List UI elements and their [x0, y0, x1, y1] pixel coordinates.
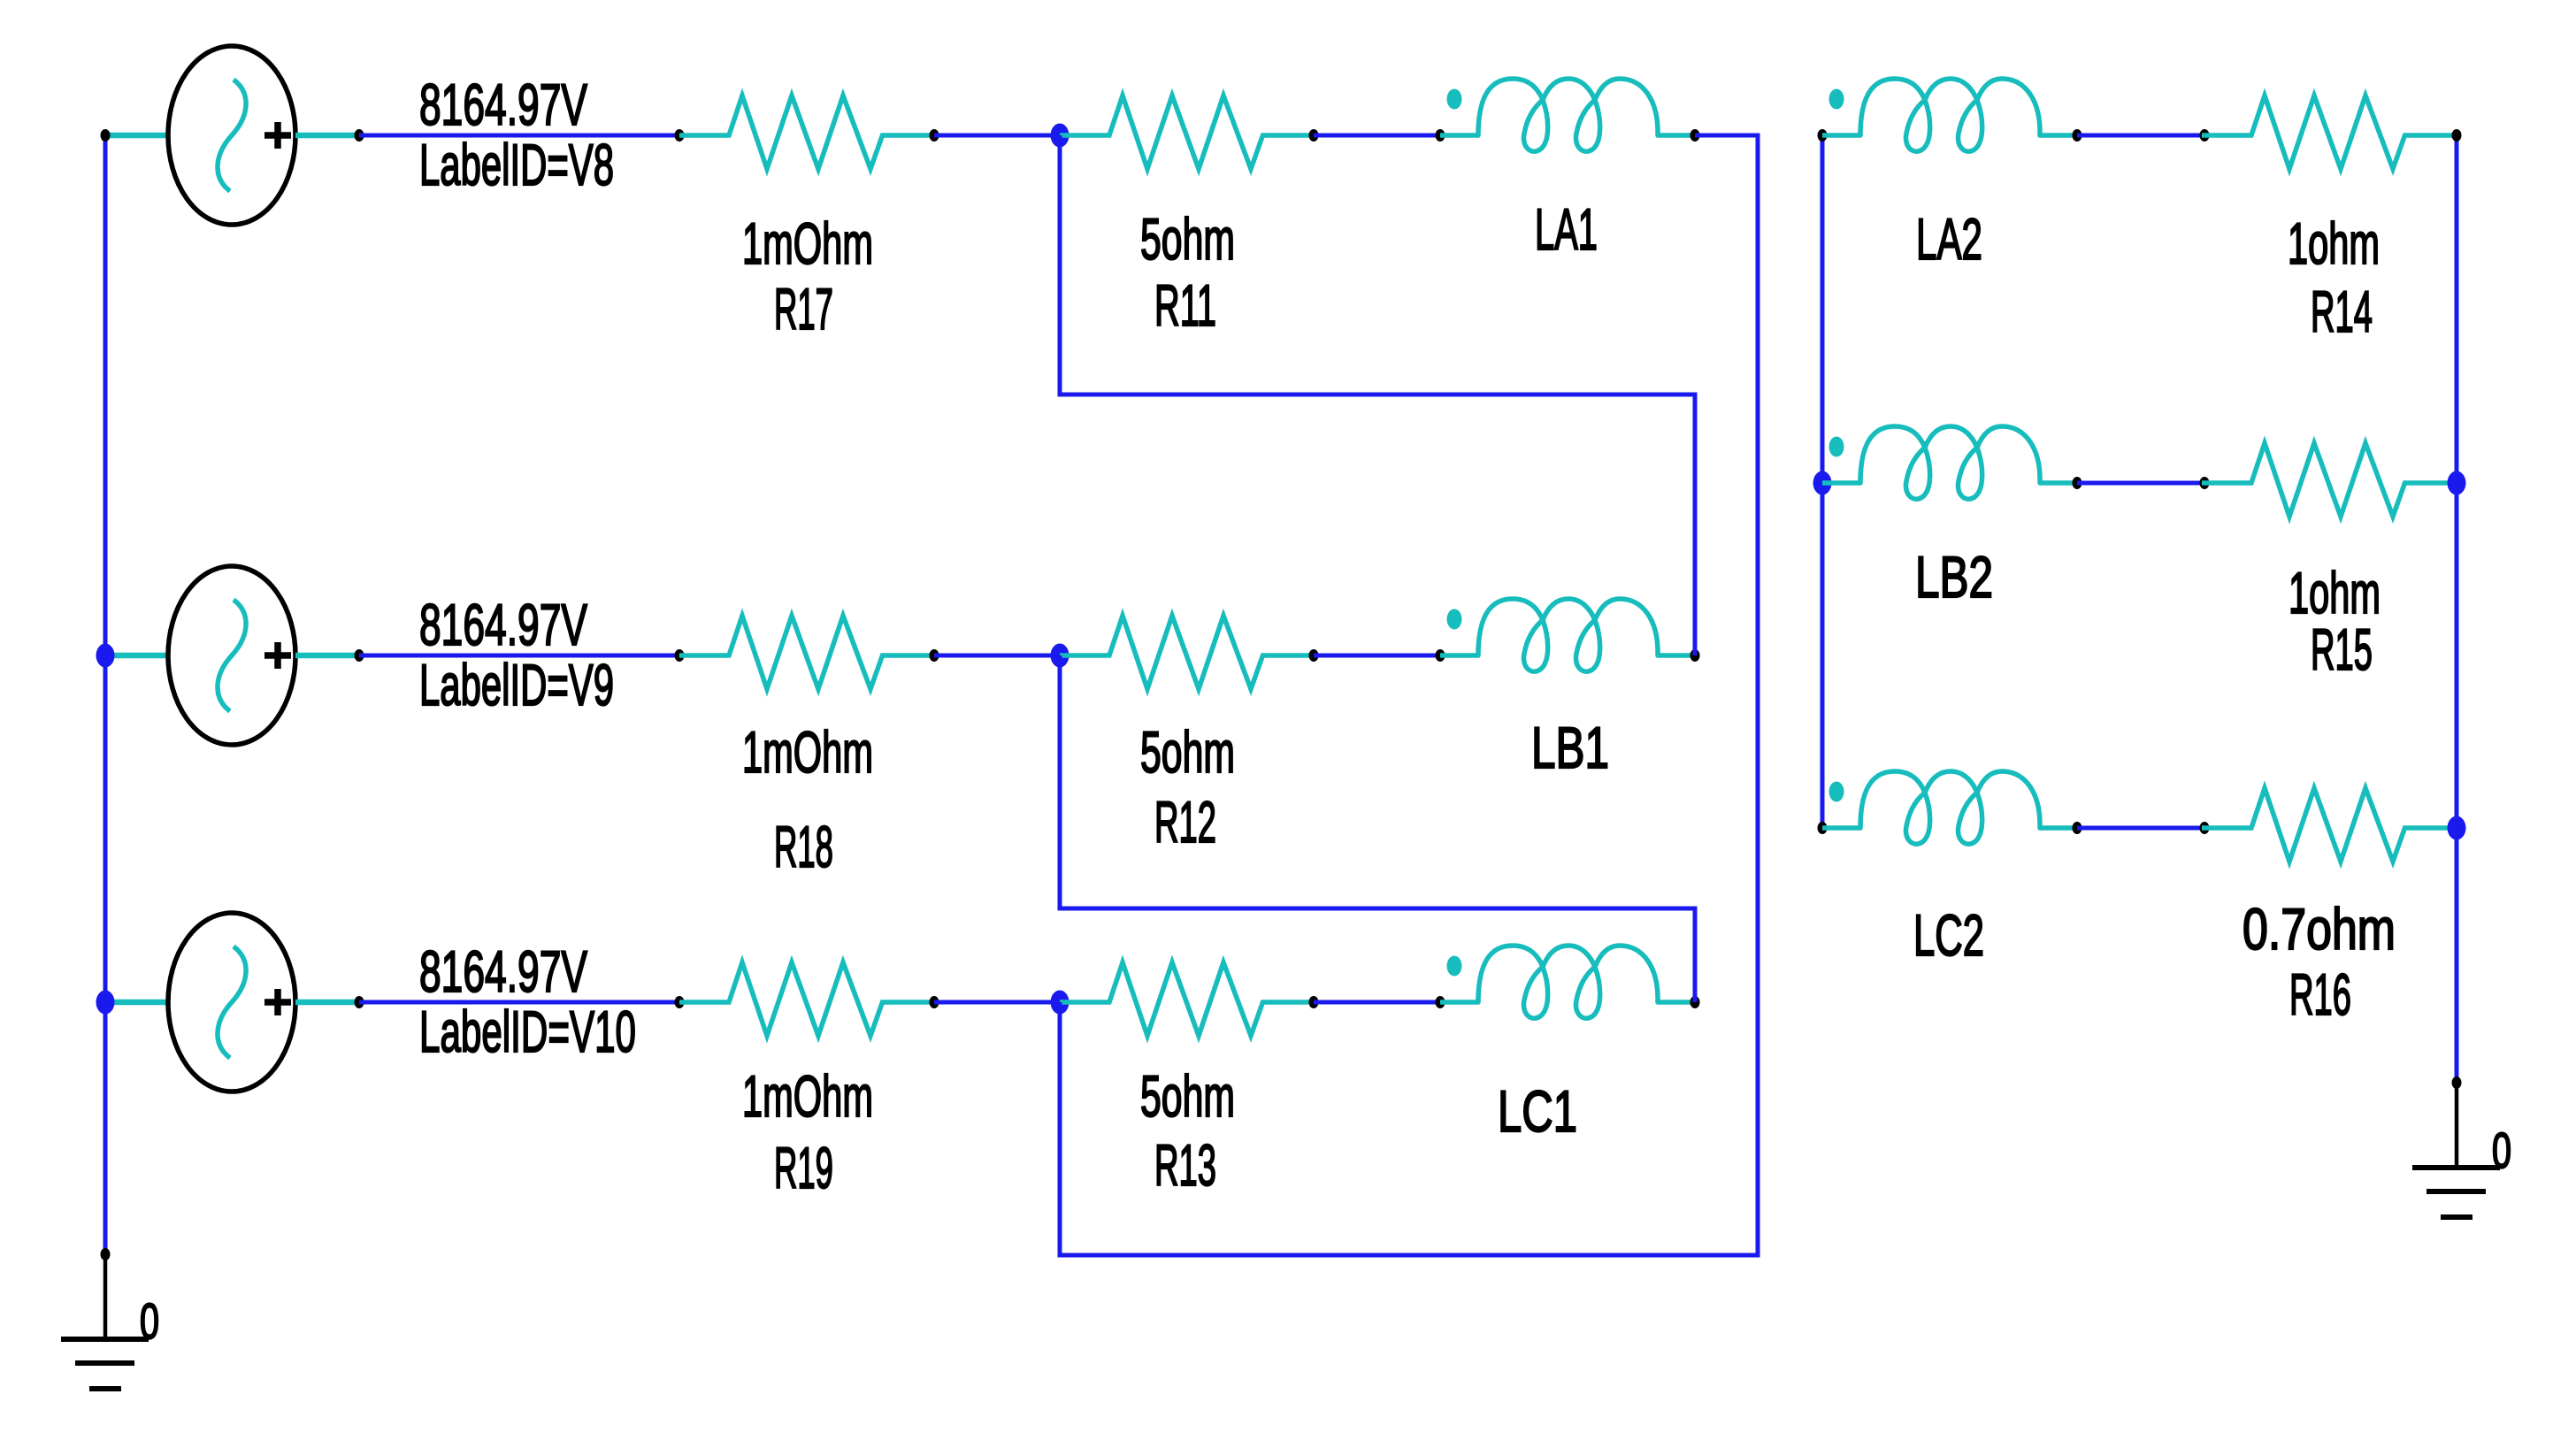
junction left bus row3 [96, 991, 115, 1015]
wire source V9 left stub [105, 653, 170, 659]
junction node R18/R12 [1051, 644, 1069, 668]
svg-text:LabelID=V9: LabelID=V9 [419, 652, 614, 717]
label R12 value 5ohm [1140, 719, 1235, 785]
svg-text:R12: R12 [1154, 789, 1216, 854]
svg-text:LB1: LB1 [1531, 715, 1609, 780]
label 0 left ground [140, 1293, 159, 1350]
svg-text:R18: R18 [774, 814, 833, 879]
wire R12 to LB1 [1314, 654, 1440, 658]
AC voltage source V8 [168, 46, 295, 225]
pin R19 right [930, 996, 939, 1008]
svg-text:8164.97V: 8164.97V [419, 72, 587, 137]
label LabelID=V9 [419, 652, 614, 717]
junction R16 right bus [2448, 816, 2466, 840]
pin LA1 right [1690, 129, 1700, 142]
pin R19 left [675, 996, 685, 1008]
pin R16 left [2200, 822, 2210, 834]
label LabelID=V8 [419, 132, 614, 197]
svg-text:R16: R16 [2289, 962, 2351, 1027]
label R16 value [2242, 896, 2396, 962]
junction LB2 left bus [1813, 471, 1832, 495]
wire R17 to node [934, 134, 1060, 138]
label R13 ref [1154, 1132, 1216, 1198]
wire LC2 to R16 [2077, 826, 2204, 831]
pin LB1 right [1690, 649, 1700, 662]
svg-text:1mOhm: 1mOhm [742, 211, 873, 276]
svg-text:LC1: LC1 [1498, 1078, 1577, 1144]
wire source V10 left stub [105, 1000, 170, 1006]
label 0 right ground [2492, 1122, 2511, 1179]
svg-text:8164.97V: 8164.97V [419, 592, 587, 657]
svg-text:R11: R11 [1154, 272, 1216, 338]
label R19 value 1mOhm [742, 1063, 873, 1129]
label R14 value [2288, 211, 2380, 276]
svg-text:0.7ohm: 0.7ohm [2242, 896, 2396, 962]
label R11 ref [1154, 272, 1216, 338]
pin R11 right [1309, 129, 1319, 142]
label R14 ref [2311, 279, 2373, 344]
wire R18 to node [934, 654, 1060, 658]
resistor R14 [2202, 96, 2457, 169]
label R17 ref [774, 276, 833, 341]
pin R15 left [2200, 477, 2210, 489]
pin LC1 right [1690, 996, 1700, 1008]
inductor LB1 [1440, 599, 1695, 671]
wire V10 to R [359, 1000, 679, 1005]
svg-text:8164.97V: 8164.97V [419, 939, 587, 1004]
svg-text:1ohm: 1ohm [2288, 211, 2380, 276]
pin source V8 plus terminal [355, 129, 364, 142]
label R19 ref [774, 1135, 833, 1200]
svg-text:0: 0 [2492, 1122, 2511, 1179]
svg-text:LC2: LC2 [1913, 902, 1984, 968]
junction node R17/R11 [1051, 124, 1069, 148]
svg-text:LabelID=V8: LabelID=V8 [419, 132, 614, 197]
resistor R11 [1060, 96, 1315, 169]
svg-text:R15: R15 [2311, 617, 2373, 682]
label LA1 [1535, 196, 1598, 262]
label R17 value 1mOhm [742, 211, 873, 276]
svg-text:LB2: LB2 [1915, 544, 1993, 609]
wire LB2 to R15 [2077, 481, 2204, 486]
inductor LA1 [1440, 79, 1695, 151]
resistor R18 [679, 616, 934, 689]
pin left bus bottom [101, 1248, 111, 1260]
pin LC2 left [1818, 822, 1828, 834]
pin LB1 left [1436, 649, 1445, 662]
ground ground 0 right [2412, 1083, 2500, 1217]
wire source V8 right stub [295, 133, 359, 139]
junction R15 right bus [2448, 471, 2466, 495]
pin left bus top [101, 129, 111, 142]
label LC2 [1913, 902, 1984, 968]
wire R13 to LC1 [1314, 1000, 1440, 1005]
label R18 value 1mOhm [742, 719, 873, 785]
wire right-section left bus [1821, 135, 1825, 828]
junction node R19/R13 [1051, 991, 1069, 1015]
pin LC2 right [2073, 822, 2082, 834]
svg-text:LA1: LA1 [1535, 196, 1598, 262]
pin LB2 right [2073, 477, 2082, 489]
svg-text:5ohm: 5ohm [1140, 719, 1235, 785]
svg-text:0: 0 [140, 1293, 159, 1350]
wire right bus vertical [2455, 135, 2459, 1083]
label R16 ref [2289, 962, 2351, 1027]
label LB1 [1531, 715, 1609, 780]
resistor R19 [679, 962, 934, 1036]
label R13 value 5ohm [1140, 1063, 1235, 1129]
label LB2 [1915, 544, 1993, 609]
svg-text:1ohm: 1ohm [2288, 560, 2380, 625]
pin LC1 left [1436, 996, 1445, 1008]
resistor R13 [1060, 962, 1315, 1036]
svg-text:LabelID=V10: LabelID=V10 [419, 999, 636, 1064]
label R12 ref [1154, 789, 1216, 854]
wire R11 to LA1 [1314, 134, 1440, 138]
label LC1 [1498, 1078, 1577, 1144]
AC voltage source V10 [168, 913, 295, 1092]
label R11 value 5ohm [1140, 206, 1235, 272]
label R15 value [2288, 560, 2380, 625]
wire R19 to node [934, 1000, 1060, 1005]
svg-text:1mOhm: 1mOhm [742, 719, 873, 785]
pin source V10 plus terminal [355, 996, 364, 1008]
resistor R17 [679, 96, 934, 169]
resistor R12 [1060, 616, 1315, 689]
svg-text:1mOhm: 1mOhm [742, 1063, 873, 1129]
svg-text:R13: R13 [1154, 1132, 1216, 1198]
junction left bus row2 [96, 644, 115, 668]
pin R14 left [2200, 129, 2210, 142]
svg-text:R17: R17 [774, 276, 833, 341]
pin right bus bottom [2452, 1076, 2462, 1089]
label V9 value 8164.97V [419, 592, 587, 657]
pin LA2 right [2073, 129, 2082, 142]
pin R14 right [2452, 129, 2462, 142]
svg-text:5ohm: 5ohm [1140, 206, 1235, 272]
wire node B to LC1 right pin [1060, 655, 1695, 1002]
wire V8 to R [359, 134, 679, 138]
pin source V9 plus terminal [355, 649, 364, 662]
wire V9 to R [359, 654, 679, 658]
label LabelID=V10 [419, 999, 636, 1064]
pin R18 left [675, 649, 685, 662]
wire source V9 right stub [295, 653, 359, 659]
svg-text:5ohm: 5ohm [1140, 1063, 1235, 1129]
pin LA1 left [1436, 129, 1445, 142]
AC voltage source V9 [168, 566, 295, 745]
pin R17 left [675, 129, 685, 142]
svg-text:LA2: LA2 [1916, 206, 1982, 272]
ground ground 0 left [61, 1254, 149, 1389]
resistor R16 [2202, 788, 2457, 862]
pin R13 right [1309, 996, 1319, 1008]
inductor LA2 [1822, 79, 2077, 151]
svg-text:R14: R14 [2311, 279, 2373, 344]
inductor LC2 [1822, 771, 2077, 844]
wire node C to LA1 right pin [1060, 135, 1758, 1255]
label R18 ref [774, 814, 833, 879]
label V8 value 8164.97V [419, 72, 587, 137]
pin R17 right [930, 129, 939, 142]
pin R12 right [1309, 649, 1319, 662]
label LA2 [1916, 206, 1982, 272]
inductor LB2 [1822, 426, 2077, 499]
wire node A to LB1 right pin [1060, 135, 1695, 655]
wire source V8 left stub [105, 133, 170, 139]
pin LA2 left [1818, 129, 1828, 142]
label V10 value 8164.97V [419, 939, 587, 1004]
label R15 ref [2311, 617, 2373, 682]
inductor LC1 [1440, 946, 1695, 1018]
wire left bus vertical [103, 135, 108, 1254]
wire LA2 to R14 [2077, 134, 2204, 138]
wire source V10 right stub [295, 1000, 359, 1006]
pin R18 right [930, 649, 939, 662]
resistor R15 [2202, 443, 2457, 517]
svg-text:R19: R19 [774, 1135, 833, 1200]
